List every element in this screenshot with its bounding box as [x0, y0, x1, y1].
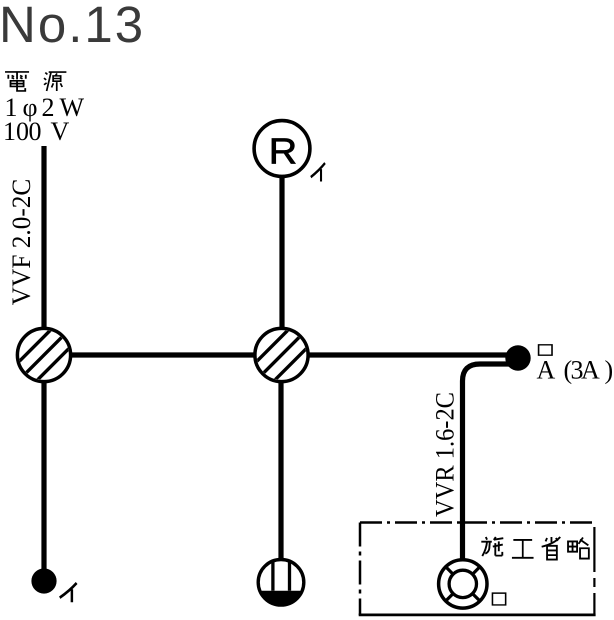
joint box (VVF) center	[254, 327, 309, 382]
label 工	[512, 540, 534, 558]
label 略	[568, 537, 589, 558]
label イ for receptacle	[311, 163, 325, 181]
svg-text:R: R	[269, 130, 297, 171]
wire: drop from lamp receptacle R to center joint box	[279, 148, 284, 355]
wire: VVR run from switch ロ down to omitted section	[463, 364, 518, 578]
label ロ for lamp	[492, 593, 505, 605]
switch ロ (single-pole)	[505, 345, 530, 370]
lamp ロ in omitted section (ceiling light)	[439, 560, 487, 608]
label ロ for switch	[539, 345, 552, 355]
svg-text:VVF 2.0-2C: VVF 2.0-2C	[7, 179, 36, 306]
power source label 源	[44, 72, 66, 91]
wire: main horizontal run from left joint box to switch ロ	[44, 352, 518, 357]
switch イ (single-pole)	[31, 568, 56, 593]
wire: source drop from 100V to switch イ through joint box	[41, 146, 46, 581]
svg-text:VVR 1.6-2C: VVR 1.6-2C	[431, 392, 460, 517]
svg-text:100V: 100V	[3, 117, 70, 146]
wire: drop from center joint box to ceiling rosette	[278, 355, 283, 575]
power source label 電	[5, 72, 29, 91]
joint box (VVF) left	[16, 327, 71, 382]
lamp receptacle R	[254, 121, 310, 177]
ceiling rosette (round)	[258, 560, 304, 606]
label 省	[542, 537, 561, 560]
label イ for switch	[60, 583, 77, 602]
svg-text:No.13: No.13	[0, 0, 145, 53]
boundary: construction-omitted dashed box	[360, 521, 594, 524]
label 施	[481, 537, 503, 556]
